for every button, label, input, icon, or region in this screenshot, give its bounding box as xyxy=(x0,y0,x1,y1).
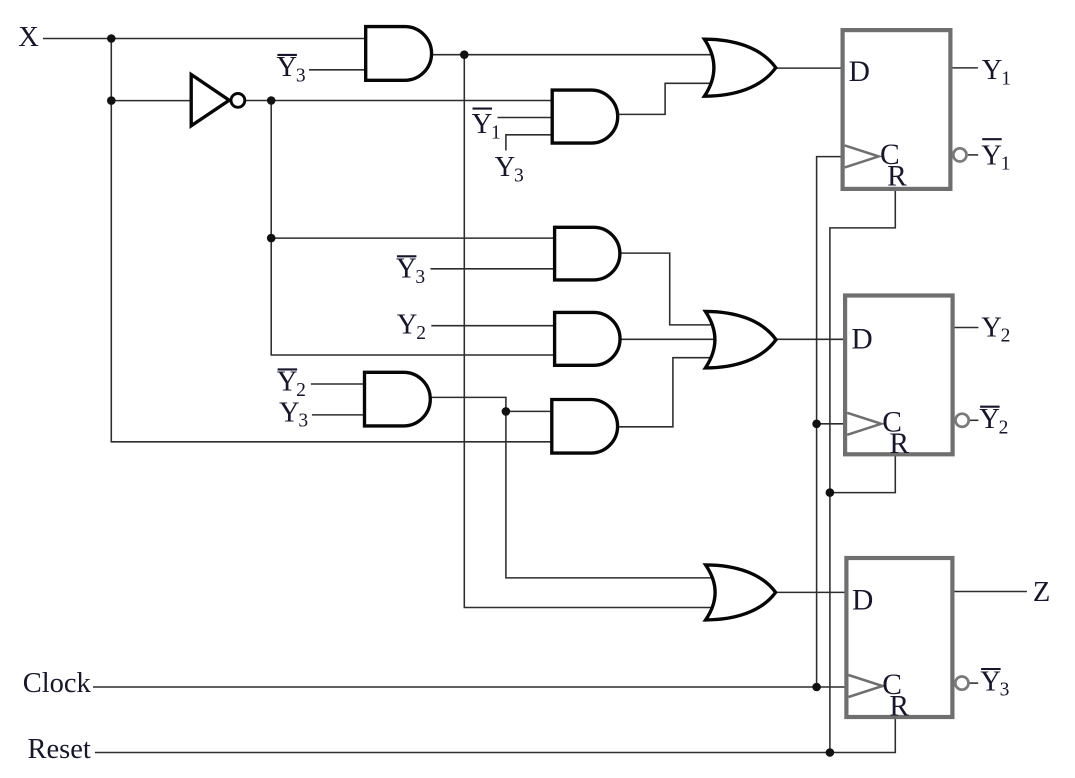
AND gate A1 (X·Y3bar) xyxy=(366,27,432,81)
svg-text:Y: Y xyxy=(472,109,493,140)
svg-text:Y: Y xyxy=(981,140,1002,171)
wire OR3 output to D of U3 xyxy=(775,591,845,593)
svg-text:Y: Y xyxy=(396,254,417,285)
svg-text:Clock: Clock xyxy=(23,668,92,699)
svg-text:X: X xyxy=(18,22,39,53)
node AND6 branch junction xyxy=(502,407,511,416)
svg-text:Reset: Reset xyxy=(28,734,91,765)
svg-text:3: 3 xyxy=(514,165,524,186)
node X inverter junction xyxy=(107,96,116,105)
node inverter mid junction xyxy=(267,234,276,243)
wire AND4 output to OR2 middle input xyxy=(621,338,714,340)
wire Clock vertical riser to C of U1 xyxy=(817,157,842,687)
AND gate A3 (Xbar·Y3bar) xyxy=(555,227,620,280)
OR gate O3 xyxy=(706,565,776,620)
svg-text:3: 3 xyxy=(296,66,306,87)
AND gate A2 (Xbar·Y1bar·Y3) xyxy=(552,90,617,143)
flip-flop U3 clock triangle xyxy=(849,675,883,697)
OR gate O1 xyxy=(704,39,775,96)
wire Y1bar output from bubble xyxy=(968,154,978,156)
wire Y3bar to AND3 bottom input xyxy=(431,268,557,270)
wire Clock line to C of U3 xyxy=(93,686,846,688)
wire AND1 output to OR1 top input xyxy=(431,54,715,56)
wire Y3 to AND2 bottom input xyxy=(506,135,554,151)
wire Y1bar to AND2 middle input xyxy=(498,117,555,119)
svg-text:2: 2 xyxy=(416,323,426,344)
svg-text:Y: Y xyxy=(982,55,1003,86)
wire Reset line into R of U3 xyxy=(95,719,895,753)
svg-text:1: 1 xyxy=(1001,68,1011,89)
D flip-flop U2 box xyxy=(845,296,953,455)
wire inverter output to AND2 top input xyxy=(245,100,553,102)
svg-text:Y: Y xyxy=(397,310,418,341)
wire Reset vertical riser to R of U1 xyxy=(830,191,895,753)
wire AND1 branch down to OR3 bottom input xyxy=(464,55,714,608)
wire Reset branch to R of U2 xyxy=(830,456,895,493)
svg-text:Z: Z xyxy=(1033,577,1050,608)
svg-text:3: 3 xyxy=(298,411,308,432)
AND gate A4 (Y2·Xbar) xyxy=(555,312,620,365)
D flip-flop U1 box xyxy=(843,30,951,189)
node inverter output junction xyxy=(267,96,276,105)
wire OR1 output to D of U1 xyxy=(776,67,842,69)
node reset R3 junction xyxy=(826,748,835,757)
wire Y3bar output from bubble xyxy=(969,682,978,684)
svg-text:1: 1 xyxy=(491,123,501,144)
wire inverter branch down to AND4 bottom input xyxy=(271,101,555,356)
wire inverter branch to AND3 top input xyxy=(271,237,555,239)
svg-text:R: R xyxy=(889,691,909,723)
wire junction branch to AND5 top input xyxy=(506,410,553,412)
svg-text:Y: Y xyxy=(277,52,298,83)
AND gate A5 (X·...) xyxy=(552,400,618,454)
node clock C3 junction xyxy=(812,683,821,692)
wire Y3bar to AND1 bottom input xyxy=(309,69,367,71)
flip-flop U3 output bubble xyxy=(955,677,968,690)
svg-text:D: D xyxy=(852,584,873,616)
svg-text:Y: Y xyxy=(279,397,300,428)
svg-text:3: 3 xyxy=(415,267,425,288)
wire Y3 to AND6 bottom input xyxy=(312,414,366,416)
flip-flop U1 clock triangle xyxy=(845,145,879,167)
flip-flop U2 clock triangle xyxy=(847,413,881,435)
svg-text:2: 2 xyxy=(999,417,1009,438)
node clock C2 junction xyxy=(812,420,821,429)
wire Clock branch to C of U2 xyxy=(817,423,846,425)
svg-text:3: 3 xyxy=(1000,680,1010,701)
svg-text:R: R xyxy=(887,161,907,193)
svg-text:R: R xyxy=(889,428,909,460)
wire Y2 to AND4 top input xyxy=(431,325,556,327)
wire AND6 output down to OR3 top input xyxy=(431,397,715,578)
svg-text:Y: Y xyxy=(980,666,1001,697)
OR gate O2 xyxy=(705,311,776,368)
AND gate A6 (Y2bar·Y3) xyxy=(365,372,431,426)
svg-text:Y: Y xyxy=(979,404,1000,435)
D flip-flop U3 box xyxy=(846,558,952,717)
wire X input xyxy=(43,38,367,40)
flip-flop U2 output bubble xyxy=(956,414,969,427)
svg-text:2: 2 xyxy=(1001,326,1011,347)
inverter U4 triangle xyxy=(191,75,229,126)
flip-flop U1 output bubble xyxy=(953,148,966,161)
wire AND2 output to OR1 bottom input xyxy=(618,83,713,114)
node AND1 output junction xyxy=(460,50,469,59)
wire Y1 output xyxy=(953,67,978,69)
wire X to inverter input xyxy=(111,100,192,102)
svg-text:Y: Y xyxy=(277,367,298,398)
wire Y2bar output from bubble xyxy=(970,419,979,421)
inverter U4 bubble xyxy=(231,94,245,108)
wire AND5 output to OR2 bottom input xyxy=(618,358,714,427)
svg-text:Y: Y xyxy=(495,152,516,183)
node X top junction xyxy=(107,34,116,43)
svg-text:1: 1 xyxy=(1001,154,1011,175)
wire Y2 output xyxy=(955,327,979,329)
svg-text:D: D xyxy=(851,324,872,356)
svg-text:Y: Y xyxy=(981,312,1002,343)
wire Y2bar to AND6 top input xyxy=(311,383,366,385)
wire X branch down and across to AND5 bottom input xyxy=(111,39,553,442)
svg-text:D: D xyxy=(849,56,870,88)
node reset R2 junction xyxy=(826,488,835,497)
wire AND3 output to OR2 top input xyxy=(621,253,714,325)
wire Z output xyxy=(954,591,1027,593)
wire OR2 output to D of U2 xyxy=(776,338,845,340)
